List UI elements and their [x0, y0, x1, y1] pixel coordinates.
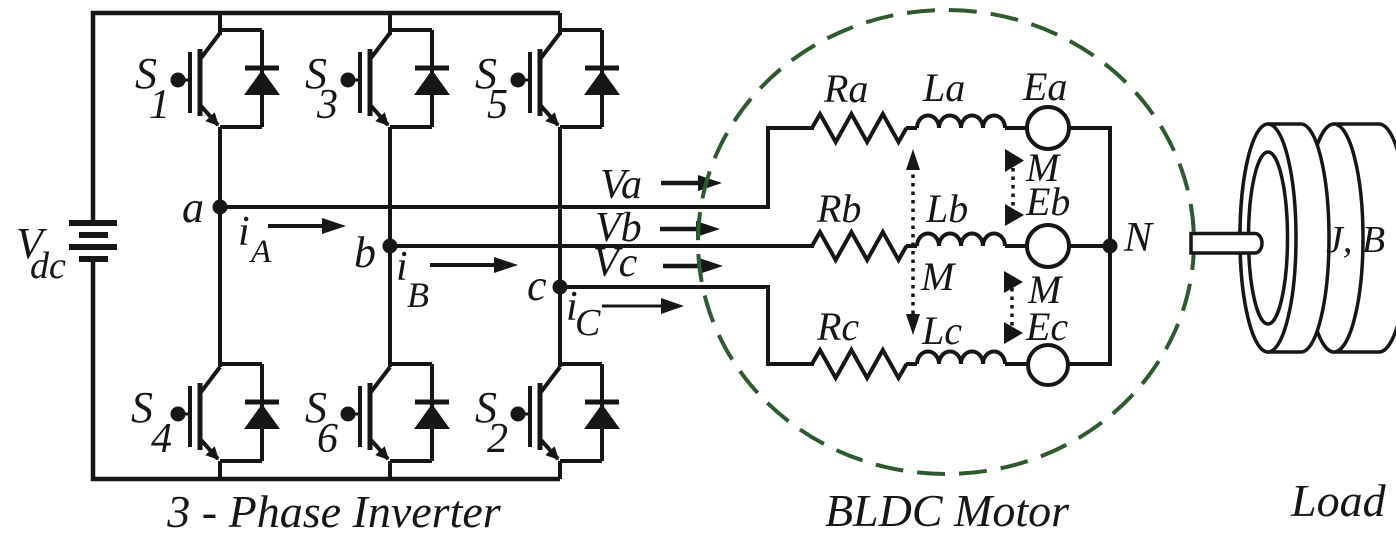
- mutual coupling arrow M Eb-Ec: [1004, 271, 1023, 344]
- current arrow iA: [268, 218, 346, 234]
- svg-text:S: S: [131, 383, 153, 432]
- svg-text:a: a: [182, 183, 204, 232]
- diode antiparallel D5: [560, 30, 620, 127]
- wire top dc rail: [91, 11, 560, 16]
- svg-text:6: 6: [317, 416, 338, 462]
- svg-text:BLDC Motor: BLDC Motor: [825, 485, 1070, 536]
- transistor IGBT S2: [511, 367, 561, 460]
- svg-text:N: N: [1123, 215, 1154, 261]
- arrow Vb: [660, 221, 720, 237]
- node c: [553, 280, 568, 295]
- arrow Vc: [663, 258, 723, 274]
- svg-text:La: La: [922, 65, 965, 110]
- svg-text:M: M: [920, 254, 957, 299]
- wire Ra-La: [906, 126, 917, 130]
- svg-text:Load: Load: [1290, 475, 1387, 526]
- wire inverter leg b: [388, 13, 392, 479]
- node N: [1103, 239, 1118, 254]
- svg-text:Lb: Lb: [925, 186, 968, 231]
- battery Vdc: [69, 223, 117, 259]
- transistor IGBT S1: [171, 33, 221, 126]
- svg-text:C: C: [575, 302, 601, 344]
- wire right bus: [1108, 126, 1112, 366]
- wire Ec-bus: [1068, 362, 1112, 366]
- shaft: [1191, 234, 1262, 254]
- svg-text:Lc: Lc: [921, 308, 962, 353]
- svg-text:Va: Va: [600, 162, 642, 208]
- svg-text:J, B: J, B: [1326, 219, 1385, 261]
- inductor La: [917, 116, 1005, 129]
- resistor Rc: [812, 350, 907, 378]
- back-EMF source Ea: [1027, 107, 1069, 149]
- wire Rb-Lb: [906, 244, 917, 248]
- svg-text:b: b: [354, 228, 376, 277]
- shaft end over disk: [1236, 234, 1262, 254]
- svg-text:i: i: [396, 244, 408, 290]
- back-EMF source Eb: [1027, 225, 1069, 267]
- resistor Ra: [812, 114, 907, 142]
- wire phase b: [390, 244, 814, 248]
- svg-text:M: M: [1025, 145, 1062, 190]
- diode antiparallel D6: [390, 364, 450, 461]
- svg-text:Ea: Ea: [1022, 64, 1067, 109]
- current arrow iC: [602, 298, 684, 314]
- transistor IGBT S4: [171, 367, 221, 460]
- node a: [213, 200, 228, 215]
- wire left dc rail upper: [91, 11, 96, 222]
- wire La-Ea: [1005, 126, 1028, 130]
- svg-text:1: 1: [149, 82, 170, 128]
- back-EMF source Ec: [1028, 345, 1068, 385]
- svg-text:5: 5: [487, 82, 508, 128]
- BLDC motor boundary dashed ellipse: [698, 10, 1194, 474]
- wire phase a: [220, 128, 814, 207]
- mutual coupling arrow M La-Lc: [906, 149, 920, 335]
- svg-text:3: 3: [316, 82, 338, 128]
- diode antiparallel D3: [390, 30, 450, 127]
- resistor Rb: [812, 232, 907, 260]
- svg-text:2: 2: [487, 416, 508, 462]
- wire inverter leg a: [218, 13, 222, 479]
- current arrow iB: [430, 257, 518, 273]
- svg-text:A: A: [249, 234, 272, 270]
- mutual coupling arrow M Ea-Eb: [1005, 149, 1024, 226]
- wire inverter leg c: [558, 13, 562, 479]
- node b: [383, 239, 398, 254]
- transistor IGBT S6: [341, 367, 391, 460]
- svg-text:Rc: Rc: [816, 304, 859, 349]
- wire Rc-Lc: [906, 362, 917, 366]
- transistor IGBT S3: [341, 33, 391, 126]
- diode antiparallel D2: [560, 364, 620, 461]
- diode antiparallel D1: [220, 30, 280, 127]
- wire Ea-bus: [1069, 126, 1112, 130]
- wire Lc-Ec: [1005, 362, 1028, 366]
- diode antiparallel D4: [220, 364, 280, 461]
- svg-text:M: M: [1027, 267, 1064, 312]
- wire phase c: [560, 287, 814, 364]
- svg-text:dc: dc: [30, 245, 66, 287]
- inductor Lb: [917, 234, 1005, 247]
- svg-text:c: c: [527, 261, 547, 310]
- load flywheel rear disk: [1305, 124, 1396, 352]
- svg-text:B: B: [407, 275, 429, 315]
- wire bottom dc rail: [91, 477, 560, 482]
- load flywheel front disk: [1240, 124, 1329, 352]
- arrow Va: [661, 175, 722, 191]
- wire Eb-N: [1069, 244, 1112, 248]
- svg-text:i: i: [238, 209, 250, 255]
- wire left dc rail lower: [91, 261, 96, 481]
- wire Lb-Eb: [1005, 244, 1028, 248]
- svg-text:Ra: Ra: [823, 66, 868, 111]
- svg-text:Vc: Vc: [593, 240, 638, 286]
- transistor IGBT S5: [511, 33, 561, 126]
- svg-text:Rb: Rb: [816, 186, 861, 231]
- svg-text:4: 4: [151, 416, 172, 462]
- inductor Lc: [917, 352, 1005, 365]
- svg-text:3 - Phase Inverter: 3 - Phase Inverter: [166, 486, 501, 537]
